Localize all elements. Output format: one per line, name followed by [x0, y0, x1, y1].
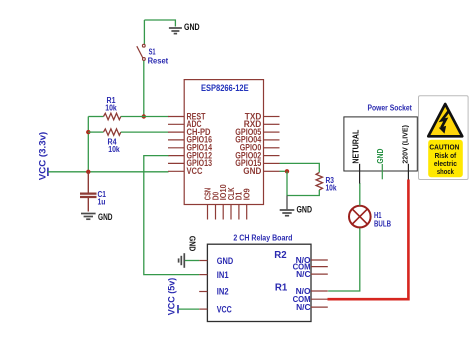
svg-text:2 CH Relay Board: 2 CH Relay Board	[233, 234, 292, 243]
wire	[121, 116, 169, 118]
wire	[87, 117, 89, 172]
node REST junction	[142, 114, 146, 118]
pin labels right	[235, 111, 262, 176]
node VCC junction	[86, 170, 90, 174]
svg-text:220V (LIVE): 220V (LIVE)	[400, 125, 409, 164]
wire GPIO15 to R3	[280, 163, 320, 172]
power VCC (5v)	[177, 305, 179, 313]
wire ESP GND pin	[280, 170, 288, 172]
svg-text:10k: 10k	[105, 103, 117, 113]
wire GPIO12 to IN1	[144, 156, 199, 275]
svg-text:N/C: N/C	[296, 303, 311, 312]
svg-text:GND: GND	[243, 166, 261, 176]
relay pin stubs left	[199, 261, 207, 310]
svg-text:1u: 1u	[98, 197, 106, 207]
wire relay vcc	[178, 308, 199, 310]
svg-text:VCC: VCC	[187, 166, 203, 176]
svg-text:GND: GND	[376, 148, 385, 163]
svg-text:GND: GND	[98, 212, 113, 222]
wire	[143, 20, 145, 44]
svg-text:VCC (3.3v): VCC (3.3v)	[38, 132, 48, 181]
svg-text:Reset: Reset	[148, 57, 169, 66]
svg-text:10k: 10k	[108, 144, 120, 154]
IC U1 ESP8266-12E	[184, 80, 263, 205]
svg-text:VCC (5v): VCC (5v)	[167, 278, 177, 316]
svg-text:CAUTION: CAUTION	[429, 143, 459, 152]
pin stubs right	[264, 117, 280, 172]
svg-text:IO9: IO9	[242, 188, 252, 200]
svg-text:S1: S1	[149, 48, 156, 57]
relay pin stubs right	[311, 260, 328, 307]
relay board box	[207, 244, 311, 321]
svg-text:GND: GND	[188, 236, 197, 252]
relay labels left	[217, 256, 233, 316]
ground	[81, 214, 96, 220]
svg-text:GND: GND	[184, 22, 200, 32]
lamp H1	[349, 206, 371, 228]
wire R3 bottom to GND net	[287, 190, 319, 196]
wire	[88, 116, 103, 118]
wire relay gnd	[185, 260, 199, 262]
node GND junction	[285, 169, 289, 173]
wire live red	[328, 180, 409, 300]
svg-text:R2: R2	[274, 250, 287, 261]
svg-text:Power Socket: Power Socket	[368, 104, 413, 113]
svg-text:ESP8266-12E: ESP8266-12E	[201, 83, 249, 93]
lightning bolt	[441, 111, 449, 128]
resistor R1	[104, 113, 121, 119]
svg-text:10k: 10k	[326, 183, 337, 193]
svg-text:IN2: IN2	[217, 287, 229, 298]
ground sideways for relay	[179, 253, 185, 268]
wire	[88, 131, 103, 133]
wire GND net vertical	[286, 171, 288, 195]
svg-text:VCC: VCC	[217, 304, 232, 315]
pin 220V LIVE	[407, 164, 409, 180]
caution sign card	[419, 96, 469, 180]
pin stubs bottom	[208, 205, 247, 220]
pin stubs left	[168, 117, 184, 172]
wire bulb to socket	[359, 183, 361, 206]
power socket box	[344, 117, 417, 171]
wire	[121, 131, 169, 133]
power VCC (3.3v)	[47, 168, 49, 176]
wire VCC rail	[48, 171, 169, 173]
svg-text:shock: shock	[437, 169, 454, 176]
pin NETURAL	[359, 164, 361, 184]
ground	[280, 210, 295, 216]
svg-text:electric: electric	[434, 161, 457, 168]
wire	[144, 20, 175, 27]
node CH-PD junction	[86, 130, 90, 134]
svg-text:R1: R1	[275, 283, 288, 294]
pin labels left	[187, 111, 213, 176]
pin labels bottom	[202, 184, 251, 200]
svg-text:BULB: BULB	[374, 220, 391, 229]
switch S1	[137, 44, 146, 60]
pin GND socket	[381, 164, 383, 179]
svg-text:NETURAL: NETURAL	[351, 129, 360, 163]
resistor R3	[316, 173, 322, 191]
svg-text:GND: GND	[297, 205, 313, 215]
caution text	[428, 140, 463, 178]
svg-text:N/C: N/C	[296, 270, 311, 279]
svg-text:Risk of: Risk of	[435, 153, 457, 160]
wire	[143, 61, 145, 117]
ground	[169, 28, 182, 34]
svg-text:GND: GND	[217, 256, 233, 267]
resistor R4	[104, 129, 121, 135]
capacitor C1	[80, 172, 97, 212]
wire relay N/O to bulb	[328, 228, 360, 291]
caution triangle	[428, 104, 462, 136]
svg-text:IN1: IN1	[217, 270, 229, 281]
